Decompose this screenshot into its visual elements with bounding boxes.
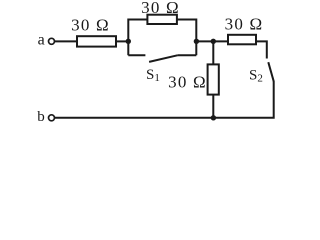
svg-text:30 Ω: 30 Ω	[71, 15, 110, 34]
svg-text:30 Ω: 30 Ω	[141, 0, 180, 17]
svg-text:30 Ω: 30 Ω	[225, 14, 264, 33]
svg-text:30 Ω: 30 Ω	[168, 72, 207, 91]
svg-text:b: b	[37, 109, 45, 125]
svg-text:a: a	[38, 32, 45, 49]
